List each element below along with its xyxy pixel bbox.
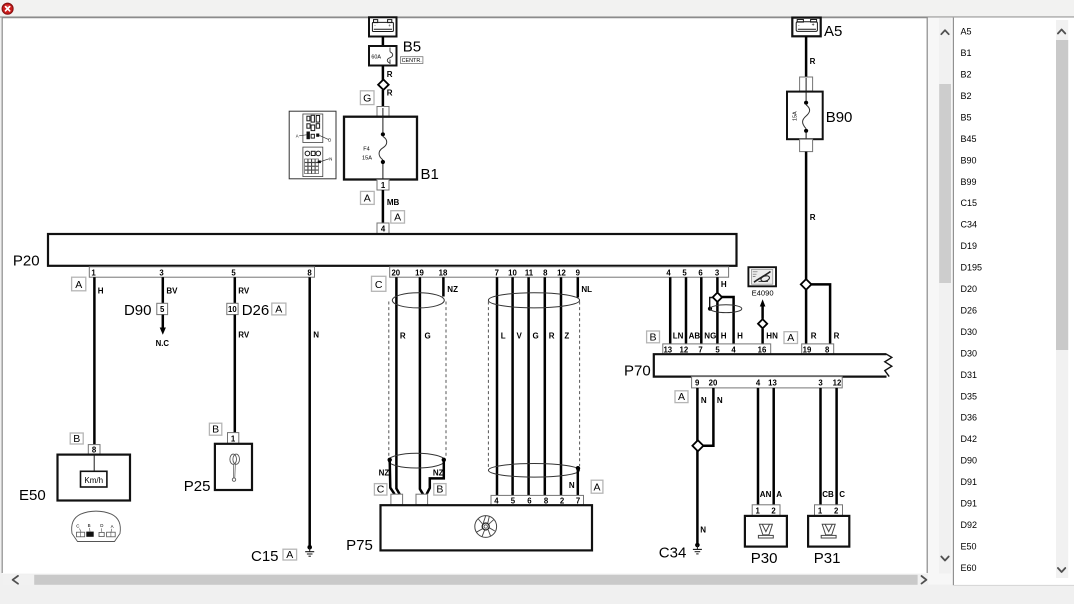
wire C P70-12 to P31-2: [837, 388, 846, 505]
qualifier C at P75: [374, 484, 387, 496]
horizontal scrollbar track: [2, 574, 928, 585]
wire H pin1 to E50: [94, 277, 103, 444]
svg-text:B5: B5: [961, 112, 972, 122]
svg-text:8: 8: [307, 268, 312, 277]
shield drain NZ right: [427, 458, 446, 495]
svg-text:18: 18: [439, 268, 448, 277]
svg-text:G: G: [533, 331, 539, 340]
svg-text:4: 4: [494, 496, 499, 505]
svg-text:C: C: [839, 490, 845, 499]
shield ellipse bottom right: [488, 464, 579, 478]
svg-text:D19: D19: [961, 241, 978, 251]
horizontal scrollbar right arrow: [922, 576, 927, 584]
close button: [2, 3, 13, 14]
svg-text:13: 13: [663, 345, 672, 354]
shield drain NZ left: [379, 458, 395, 495]
horn P30: [745, 516, 787, 547]
svg-text:B1: B1: [961, 48, 972, 58]
svg-text:1: 1: [818, 507, 823, 516]
svg-text:60A: 60A: [371, 55, 381, 61]
svg-text:C15: C15: [251, 548, 279, 565]
svg-text:C: C: [375, 279, 383, 291]
svg-text:D90: D90: [124, 302, 152, 319]
B90 top stub: [800, 77, 813, 91]
svg-text:N: N: [329, 157, 332, 162]
svg-text:A: A: [111, 524, 114, 529]
svg-text:+: +: [388, 24, 391, 29]
B1 pin 1: [377, 180, 389, 191]
svg-text:G: G: [425, 331, 431, 340]
P75 stub C: [391, 494, 403, 505]
svg-text:B: B: [212, 424, 219, 436]
wire R below B5: [383, 66, 393, 81]
svg-text:8: 8: [825, 345, 830, 354]
wire MB: [383, 190, 400, 223]
svg-text:20: 20: [709, 379, 718, 388]
vertical scrollbar track: [939, 18, 951, 574]
svg-text:P30: P30: [751, 550, 778, 567]
wire NG P20-6 to P70-7: [701, 277, 716, 344]
wire RV D26 to P25: [235, 315, 250, 433]
instrument panel E50: [58, 455, 131, 501]
wire AB P20-5 to P70-12: [686, 277, 700, 344]
connector diamond below B5: [378, 80, 389, 90]
twist loop ellipse: [710, 305, 742, 313]
E50 pin 8: [88, 445, 100, 455]
svg-text:N: N: [701, 396, 707, 405]
svg-text:R: R: [387, 89, 393, 98]
battery A5: [792, 18, 820, 37]
svg-text:LN: LN: [673, 332, 684, 341]
wire NZ pin18 to shield: [443, 277, 458, 296]
svg-text:9: 9: [576, 268, 581, 277]
wire R pin8: [545, 277, 555, 495]
horizontal scrollbar left arrow: [13, 576, 18, 584]
P20 pin 4 top: [377, 223, 389, 234]
wire N pin8 to C15: [310, 277, 320, 545]
svg-text:7: 7: [576, 496, 580, 505]
D90 pin 5: [157, 303, 168, 314]
schematic canvas: [2, 18, 927, 574]
svg-text:15A: 15A: [362, 156, 372, 162]
svg-text:20: 20: [391, 268, 400, 277]
vertical scrollbar down arrow: [941, 557, 948, 561]
wire battery to B5: [382, 37, 385, 47]
svg-text:1: 1: [91, 268, 96, 277]
shield ellipse top right: [488, 293, 579, 308]
svg-text:D35: D35: [961, 391, 978, 401]
wire N P70-20 jog: [703, 388, 723, 446]
svg-text:B99: B99: [961, 177, 977, 187]
R branch to P70-8: [811, 284, 840, 344]
svg-text:12: 12: [833, 379, 842, 388]
svg-text:CB: CB: [822, 490, 834, 499]
svg-text:F4: F4: [363, 146, 370, 152]
P75 stub B: [416, 494, 428, 505]
H main to P70-5: [717, 302, 726, 344]
svg-text:6: 6: [698, 268, 703, 277]
svg-text:B2: B2: [961, 70, 972, 80]
outside temperature sensor P25: [215, 444, 252, 490]
svg-text:4: 4: [666, 268, 671, 277]
svg-text:D90: D90: [961, 456, 978, 466]
qualifier A left of pin 1: [361, 191, 375, 204]
svg-text:NG: NG: [704, 332, 716, 341]
svg-text:B2: B2: [961, 91, 972, 101]
fuse B90: [787, 78, 823, 152]
list scrollbar track: [1056, 20, 1068, 578]
svg-text:5: 5: [682, 268, 687, 277]
svg-text:B5: B5: [403, 39, 421, 56]
junction unit P20: [48, 234, 737, 266]
svg-text:5: 5: [511, 496, 516, 505]
svg-text:R: R: [400, 331, 406, 340]
shield dashed lines right group: [488, 302, 579, 469]
svg-text:16: 16: [758, 345, 767, 354]
E4090 icon: [748, 267, 776, 286]
svg-text:R: R: [810, 57, 816, 66]
connector diamond C34: [692, 440, 703, 451]
svg-text:D26: D26: [242, 302, 270, 319]
svg-text:NZ: NZ: [379, 469, 390, 478]
svg-text:A: A: [364, 193, 371, 205]
shield dashed lines left group: [389, 302, 446, 460]
svg-text:2: 2: [771, 507, 776, 516]
wire CB P70-3 to P31-1: [821, 388, 834, 505]
svg-text:A: A: [678, 391, 685, 403]
qualifier B of E50: [70, 433, 83, 445]
svg-text:A: A: [275, 304, 282, 316]
svg-text:P31: P31: [814, 550, 841, 567]
list scrollbar thumb: [1056, 40, 1068, 350]
svg-text:N: N: [700, 526, 706, 535]
svg-text:H: H: [98, 286, 104, 295]
svg-text:19: 19: [803, 345, 812, 354]
svg-text:6: 6: [527, 496, 532, 505]
wire N P70-9: [697, 388, 707, 543]
svg-text:B: B: [88, 523, 91, 528]
svg-text:1: 1: [231, 434, 236, 443]
svg-text:C15: C15: [961, 198, 978, 208]
wire HN to P70-16: [763, 329, 778, 344]
wire Z pin12: [561, 277, 569, 495]
svg-text:C: C: [76, 524, 79, 529]
svg-text:A: A: [593, 482, 600, 494]
svg-text:RV: RV: [238, 286, 250, 295]
svg-text:MB: MB: [387, 198, 400, 207]
svg-text:D92: D92: [961, 520, 978, 530]
shield ellipse bottom left: [388, 453, 444, 468]
svg-text:B: B: [649, 331, 656, 343]
wire BV pin3 to D90: [163, 277, 178, 303]
svg-text:R: R: [549, 331, 555, 340]
qualifier A at P75: [591, 480, 603, 493]
svg-text:A: A: [394, 212, 401, 224]
svg-text:D26: D26: [961, 306, 978, 316]
P25 pin 1: [228, 433, 239, 444]
qualifier B of P25: [209, 423, 221, 436]
svg-text:15A: 15A: [793, 111, 799, 121]
svg-text:C: C: [377, 484, 385, 496]
svg-text:N: N: [717, 396, 723, 405]
svg-text:NZ: NZ: [447, 285, 458, 294]
P70 bottom pin strip: [692, 377, 843, 388]
svg-text:D36: D36: [961, 413, 978, 423]
wire LN P20-4 to P70-13: [670, 277, 683, 344]
svg-text:1: 1: [756, 507, 761, 516]
svg-text:D91: D91: [961, 499, 978, 509]
wire NL pin9 to shield: [578, 277, 592, 297]
qualifier B at P75: [434, 484, 446, 496]
connector diamond H: [713, 293, 722, 302]
svg-text:11: 11: [525, 268, 534, 277]
fuse B5: [369, 46, 397, 66]
wire AN P70-4 to P30-1: [758, 388, 772, 505]
svg-text:5: 5: [715, 345, 720, 354]
engine cooling fan P75: [381, 505, 593, 550]
svg-text:E50: E50: [19, 487, 46, 504]
svg-text:E50: E50: [961, 541, 977, 551]
wire RV pin5 to D26: [235, 277, 250, 303]
svg-text:A: A: [296, 134, 299, 139]
qualifier A right of MB: [391, 211, 405, 224]
arrow to E4090: [760, 299, 766, 319]
svg-text:1: 1: [381, 181, 386, 190]
svg-text:B1: B1: [421, 166, 439, 183]
svg-text:NL: NL: [581, 285, 592, 294]
svg-text:C34: C34: [659, 544, 687, 561]
svg-text:V: V: [517, 331, 523, 340]
svg-text:13: 13: [768, 379, 777, 388]
svg-text:12: 12: [680, 345, 689, 354]
horizontal scrollbar thumb: [34, 575, 917, 585]
list scrollbar down arrow: [1058, 568, 1065, 572]
svg-text:8: 8: [544, 496, 549, 505]
P70 top pin strip left: [663, 344, 771, 354]
svg-text:Z: Z: [564, 331, 569, 340]
H branch to P70-4: [722, 297, 743, 344]
svg-text:E60: E60: [961, 563, 977, 573]
svg-text:HN: HN: [766, 332, 778, 341]
svg-text:D30: D30: [961, 327, 978, 337]
ground C15: [305, 545, 314, 556]
svg-text:E4090: E4090: [752, 288, 774, 297]
qualifier A at P70 right: [784, 332, 798, 344]
qualifier A pins 1-8: [72, 277, 86, 291]
svg-text:D31: D31: [961, 370, 978, 380]
svg-text:RV: RV: [238, 330, 250, 339]
wire G pin19: [420, 277, 431, 494]
svg-text:A5: A5: [824, 23, 842, 40]
svg-text:D20: D20: [961, 284, 978, 294]
qualifier C shielded group: [372, 276, 386, 291]
svg-text:10: 10: [508, 268, 517, 277]
svg-text:4: 4: [756, 379, 761, 388]
R main to P70-19: [806, 290, 817, 344]
component list items: [961, 27, 983, 573]
wire H P20-3 to diamond: [717, 277, 727, 292]
svg-text:+: +: [812, 23, 815, 29]
svg-text:P25: P25: [184, 478, 211, 495]
svg-text:D30: D30: [961, 348, 978, 358]
wire R A5 to B90: [806, 36, 816, 77]
svg-text:H: H: [721, 280, 727, 289]
qualifier A of D26: [272, 303, 286, 315]
horn P31: [808, 516, 849, 547]
shield drain N to pin7: [569, 466, 580, 495]
fusebox location inset: [289, 111, 336, 179]
vertical scrollbar gutter: [928, 18, 953, 585]
svg-text:3: 3: [818, 379, 823, 388]
svg-text:AB: AB: [689, 332, 701, 341]
wire V pin10: [513, 277, 523, 495]
svg-text:7: 7: [495, 268, 499, 277]
wire A P70-13 to P30-2: [774, 388, 783, 505]
wire L pin7: [497, 277, 506, 495]
svg-text:N: N: [569, 481, 575, 490]
svg-text:B: B: [436, 484, 443, 496]
svg-text:Km/h: Km/h: [84, 476, 103, 485]
component list panel: [953, 18, 1074, 586]
svg-text:L: L: [501, 331, 506, 340]
svg-text:4: 4: [731, 345, 736, 354]
svg-text:2: 2: [834, 507, 839, 516]
P20 pin strip 20-3: [390, 267, 729, 278]
svg-text:D91: D91: [961, 477, 978, 487]
svg-text:8: 8: [543, 268, 548, 277]
svg-text:G: G: [363, 93, 371, 105]
E50 connector face view: [72, 511, 121, 541]
svg-text:H: H: [737, 332, 743, 341]
svg-text:CENTR.: CENTR.: [402, 58, 422, 64]
qualifier B at P70: [647, 331, 660, 343]
svg-text:7: 7: [698, 345, 702, 354]
connector diamond HN: [758, 319, 767, 328]
svg-text:P20: P20: [13, 253, 40, 270]
svg-text:B90: B90: [826, 109, 853, 126]
svg-text:R: R: [811, 332, 817, 341]
vertical scrollbar up arrow: [941, 30, 948, 34]
wire R B90 down: [806, 152, 816, 280]
P70 top pin strip right: [802, 344, 834, 354]
qualifier A of C15: [283, 549, 297, 561]
svg-text:12: 12: [557, 268, 566, 277]
svg-text:C34: C34: [961, 220, 978, 230]
list scrollbar up arrow: [1058, 30, 1065, 34]
svg-text:8: 8: [92, 446, 97, 455]
svg-text:2: 2: [560, 496, 565, 505]
svg-text:10: 10: [228, 305, 237, 314]
vertical scrollbar thumb: [939, 84, 951, 283]
svg-text:9: 9: [695, 379, 700, 388]
svg-text:3: 3: [159, 268, 164, 277]
svg-text:5: 5: [231, 268, 236, 277]
svg-text:N.C: N.C: [156, 339, 170, 348]
stub from diamond to loop dot: [708, 298, 713, 311]
svg-text:A: A: [286, 549, 293, 561]
svg-text:4: 4: [381, 225, 386, 234]
P20 pin strip 1-8: [89, 267, 314, 278]
svg-text:B45: B45: [961, 134, 977, 144]
battery supply above B5: [369, 17, 397, 36]
shield ellipse top left: [392, 293, 444, 308]
D26 pin 10: [227, 303, 238, 314]
wire G pin11: [529, 277, 539, 495]
svg-text:P70: P70: [624, 362, 651, 379]
svg-text:R: R: [810, 213, 816, 222]
body computer P70: [654, 354, 892, 376]
svg-text:5: 5: [160, 305, 165, 314]
svg-text:A5: A5: [961, 27, 972, 37]
svg-text:A: A: [776, 490, 782, 499]
qualifier A below P70: [675, 391, 688, 403]
svg-text:AN: AN: [760, 490, 772, 499]
svg-text:B90: B90: [961, 155, 977, 165]
svg-text:BV: BV: [166, 286, 178, 295]
svg-text:3: 3: [715, 268, 720, 277]
svg-text:19: 19: [415, 268, 424, 277]
wire R pin20: [396, 277, 406, 494]
ground C34: [693, 543, 702, 554]
svg-text:R: R: [834, 332, 840, 341]
svg-text:A: A: [787, 332, 794, 344]
wire R to B1: [383, 89, 393, 107]
svg-text:D42: D42: [961, 434, 978, 444]
svg-text:NZ: NZ: [433, 469, 444, 478]
svg-text:D: D: [100, 523, 103, 528]
P75 pin strip: [491, 495, 584, 505]
label CENTR: [401, 57, 423, 64]
svg-text:R: R: [387, 70, 393, 79]
svg-text:H: H: [721, 332, 727, 341]
P31 pin strip: [815, 505, 843, 516]
svg-text:A: A: [75, 279, 82, 291]
qualifier G: [360, 91, 374, 105]
svg-text:D195: D195: [961, 263, 983, 273]
fuse unit B1: [344, 108, 417, 190]
connector diamond R: [801, 279, 812, 290]
svg-text:D: D: [328, 138, 331, 143]
svg-text:B: B: [73, 433, 80, 445]
B1 top pin stub: [377, 107, 389, 117]
svg-text:P75: P75: [346, 537, 373, 554]
wire to N.C with arrow: [156, 315, 170, 348]
title bar: [0, 0, 1074, 17]
svg-text:N: N: [313, 330, 319, 339]
P30 pin strip: [752, 505, 780, 516]
B90 bottom stub: [800, 139, 813, 151]
